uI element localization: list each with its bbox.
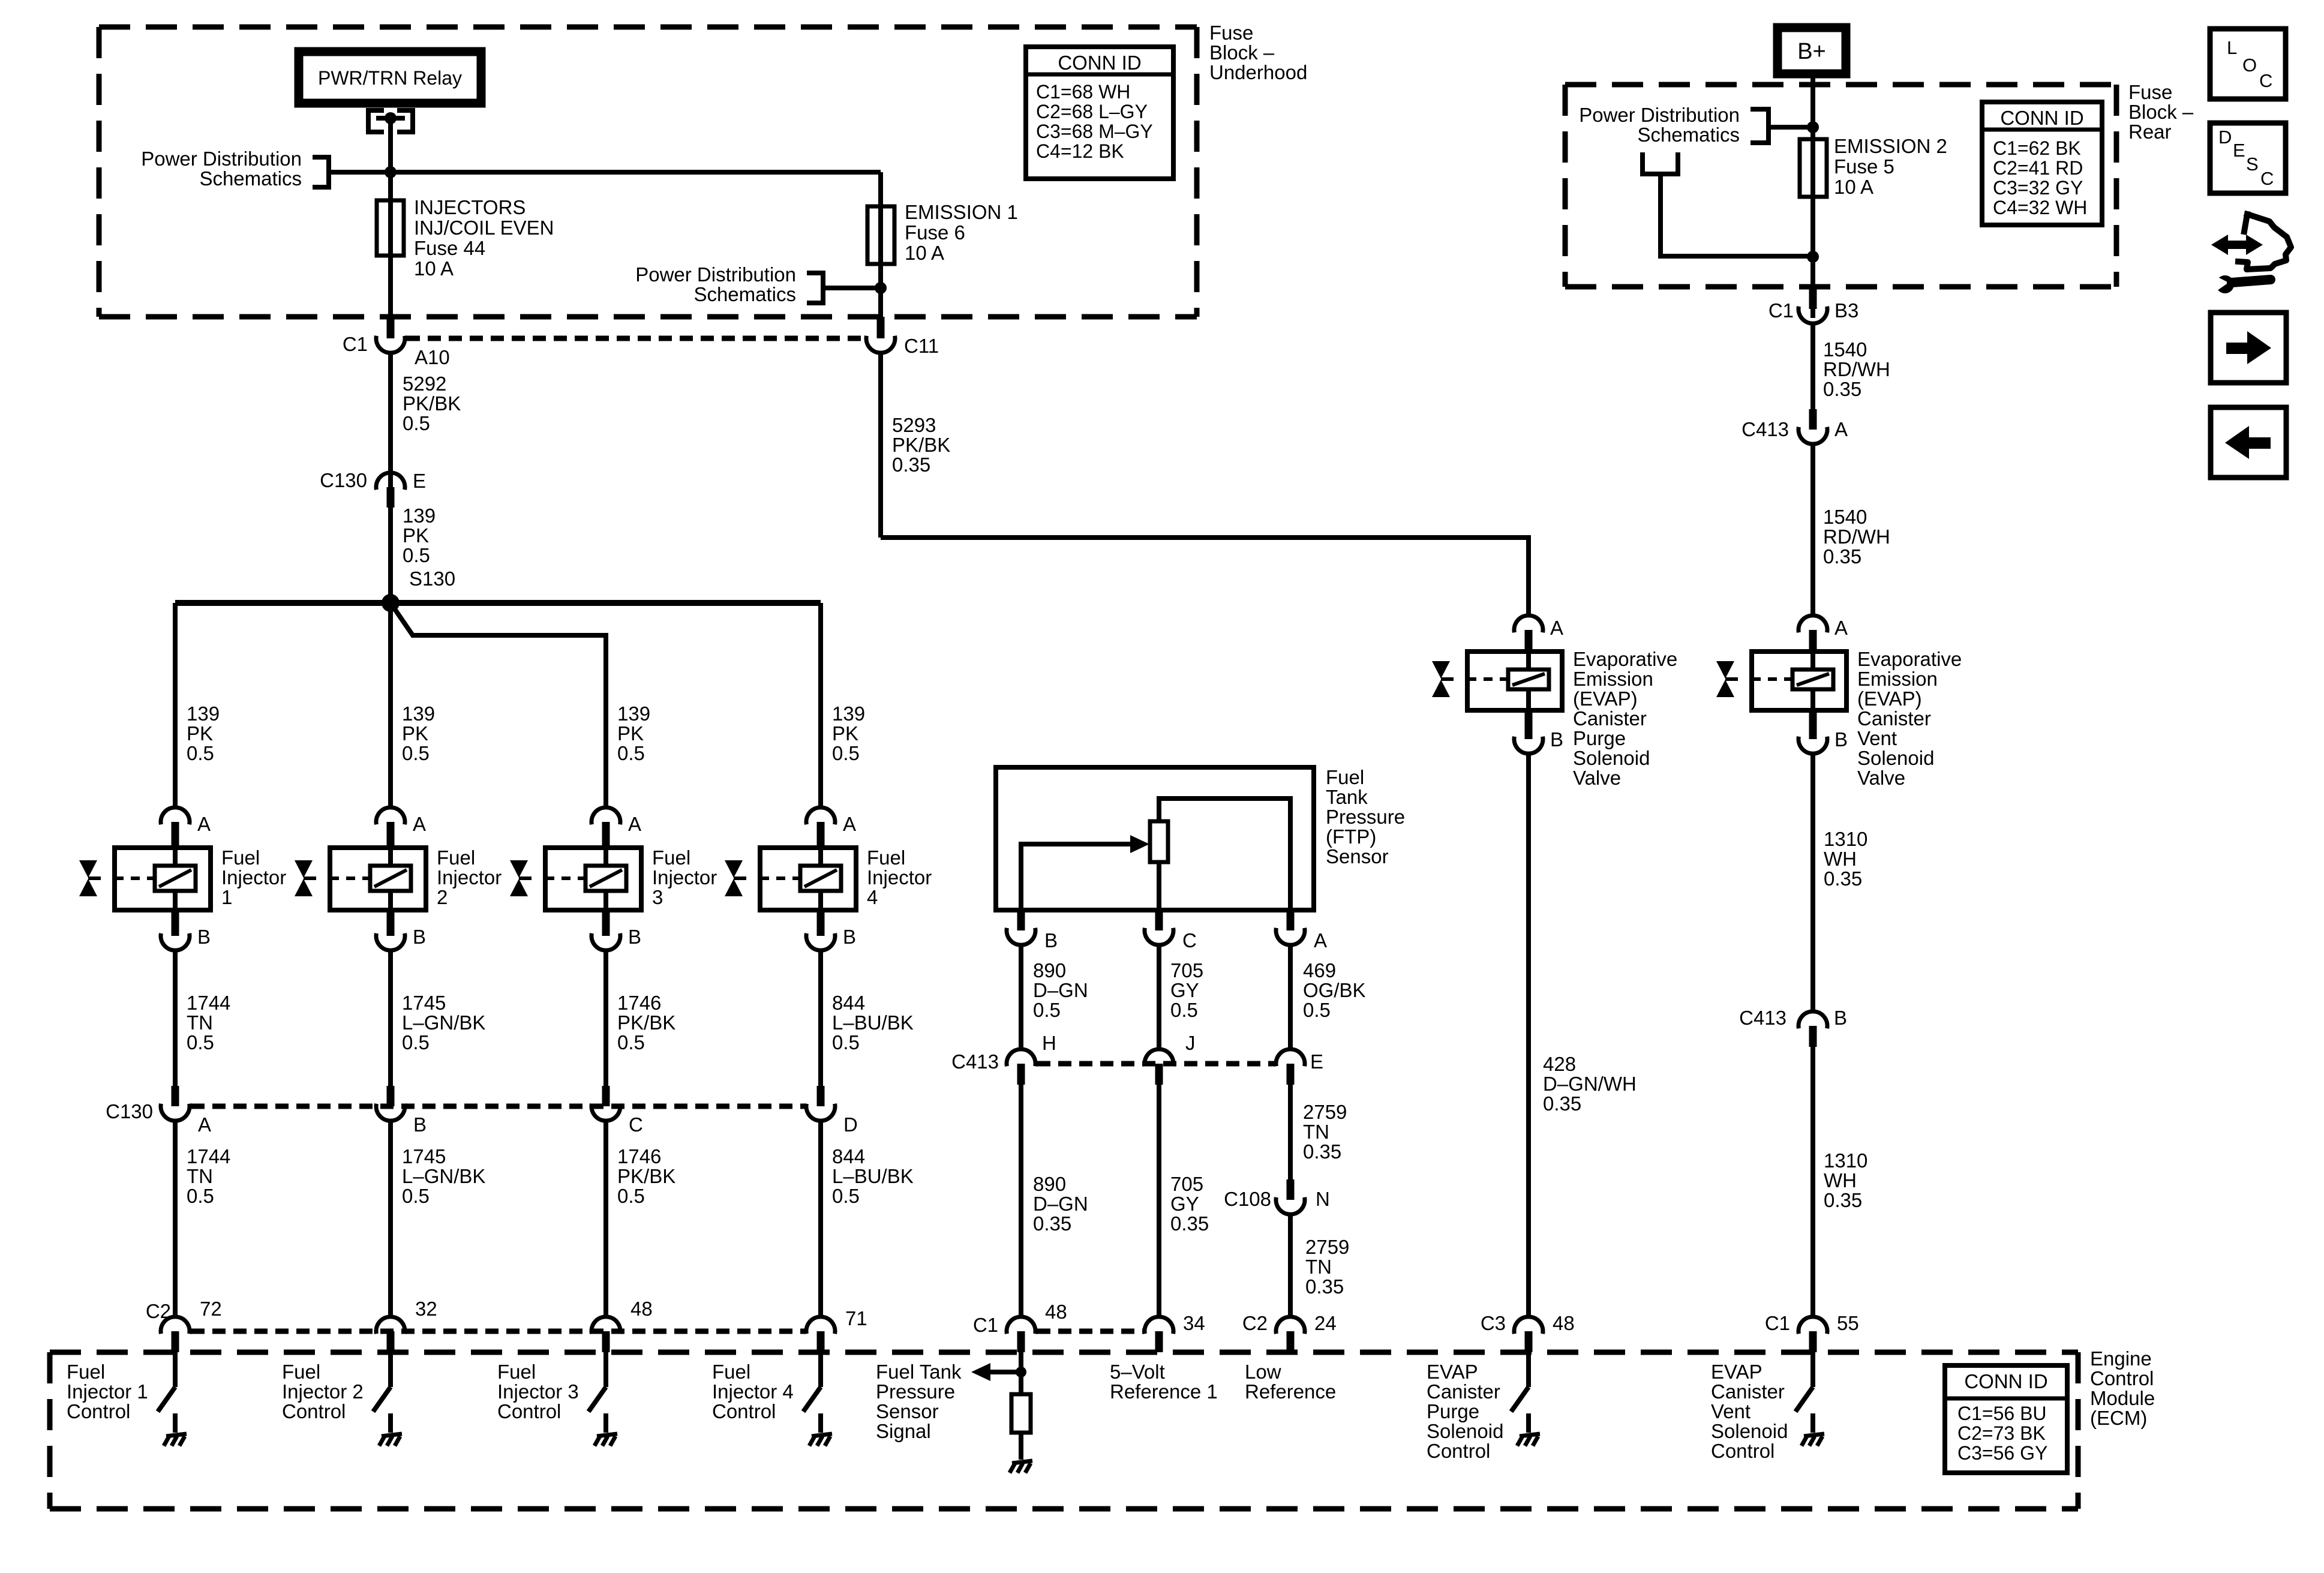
svg-text:1540: 1540 (1823, 338, 1867, 361)
svg-text:J: J (1185, 1032, 1196, 1054)
wire label 469 OG/BK 0.5 (1303, 959, 1366, 1021)
svg-text:C3: C3 (1481, 1312, 1506, 1334)
svg-text:Evaporative: Evaporative (1857, 648, 1962, 670)
svg-text:C1=56 BU: C1=56 BU (1957, 1403, 2047, 1424)
connector C2 pin 48 (591, 1317, 620, 1352)
fuel injector 2 component (330, 848, 426, 910)
wire label 890 D-GN 0.35 (1033, 1173, 1088, 1235)
svg-text:TN: TN (1303, 1121, 1329, 1143)
svg-text:Power Distribution: Power Distribution (141, 148, 302, 170)
wire label 844 L–BU/BK (lower) (832, 1145, 914, 1207)
svg-text:Schematics: Schematics (199, 167, 302, 190)
svg-text:2759: 2759 (1305, 1236, 1349, 1258)
svg-text:GY: GY (1170, 979, 1199, 1001)
svg-text:139: 139 (402, 703, 435, 725)
svg-text:Underhood: Underhood (1209, 61, 1307, 83)
svg-text:Fuse: Fuse (1209, 22, 1253, 44)
label: Fuel Injector 3 Control (497, 1361, 579, 1422)
svg-text:0.35: 0.35 (892, 454, 930, 476)
fuel injector 1 pin B (161, 910, 190, 950)
connector C130 pin C (591, 1086, 620, 1317)
EVAP purge valve pin A (1514, 616, 1543, 652)
connector C413 pin H (1007, 1049, 1035, 1085)
svg-text:RD/WH: RD/WH (1823, 358, 1890, 380)
svg-text:Reference 1: Reference 1 (1110, 1380, 1218, 1403)
svg-text:0.5: 0.5 (832, 1185, 860, 1207)
svg-text:Pressure: Pressure (876, 1380, 955, 1403)
node: junction below EMISSION 2 fuse (1807, 251, 1819, 263)
svg-text:890: 890 (1033, 1173, 1066, 1195)
svg-text:L–GN/BK: L–GN/BK (402, 1011, 485, 1034)
svg-text:Block –: Block – (2128, 101, 2194, 123)
svg-text:Reference: Reference (1245, 1380, 1336, 1403)
wire label 2759 TN 0.35 (lower) (1305, 1236, 1349, 1298)
wire: injector 3 B to C130 (603, 950, 608, 1106)
svg-text:D–GN: D–GN (1033, 1193, 1088, 1215)
node: junction below EMISSION 1 fuse (875, 282, 887, 294)
ECM switch: EVAP vent driver (1795, 1352, 1813, 1433)
svg-text:C: C (629, 1113, 643, 1136)
icon: DESC box (2210, 123, 2286, 193)
svg-text:Schematics: Schematics (693, 283, 796, 305)
svg-text:0.35: 0.35 (1824, 1189, 1862, 1211)
fuel injector 3 pin B (591, 910, 620, 950)
svg-text:Fuel: Fuel (497, 1361, 536, 1383)
svg-text:EMISSION 2: EMISSION 2 (1834, 135, 1947, 157)
svg-text:Vent: Vent (1711, 1400, 1750, 1422)
fuse F6: EMISSION 1 (867, 206, 894, 318)
svg-text:A: A (1314, 929, 1327, 951)
svg-text:Injector 2: Injector 2 (282, 1380, 364, 1403)
svg-text:0.35: 0.35 (1543, 1092, 1581, 1115)
ground (injector 2 driver) (379, 1434, 402, 1446)
fuel injector 4 valve bowtie (725, 860, 746, 896)
wire label 705 GY 0.35 (1170, 1173, 1209, 1235)
svg-text:B: B (1550, 728, 1563, 751)
wire label 139 PK 0.5 at x=292 (187, 703, 220, 764)
svg-text:A: A (843, 813, 856, 835)
svg-text:Power Distribution: Power Distribution (635, 263, 796, 286)
svg-text:Injector: Injector (867, 866, 932, 888)
ECM input: fuel tank pressure sensor signal (971, 1352, 1026, 1394)
svg-text:Control: Control (712, 1400, 776, 1422)
svg-text:Power Distribution: Power Distribution (1579, 104, 1740, 126)
svg-text:71: 71 (845, 1307, 867, 1329)
svg-text:Injector: Injector (652, 866, 717, 888)
svg-text:PK: PK (403, 524, 429, 547)
svg-text:10 A: 10 A (414, 257, 454, 280)
connector C1 pin 34 (1145, 1317, 1173, 1352)
svg-text:O: O (2242, 55, 2257, 76)
svg-text:C1=62 BK: C1=62 BK (1993, 137, 2081, 159)
svg-text:0.5: 0.5 (402, 1031, 430, 1053)
svg-text:C1: C1 (343, 333, 368, 355)
svg-text:D: D (2218, 127, 2232, 148)
label: Fuse Block - Rear (2128, 81, 2194, 143)
conn box: CONN ID (fuse block rear) (1982, 102, 2102, 225)
svg-text:(FTP): (FTP) (1326, 825, 1376, 848)
connector C130 pin B (376, 1086, 405, 1317)
svg-text:PK: PK (402, 722, 428, 745)
svg-text:B3: B3 (1834, 299, 1858, 322)
svg-text:Control: Control (282, 1400, 346, 1422)
node: junction at B+ wire (1807, 121, 1819, 133)
svg-text:0.5: 0.5 (617, 1185, 645, 1207)
svg-text:B: B (1834, 728, 1848, 751)
bracket: power distribution feed (rear right) (1750, 109, 1813, 143)
svg-text:0.5: 0.5 (402, 742, 430, 764)
svg-text:10 A: 10 A (905, 242, 944, 264)
svg-text:C4=12 BK: C4=12 BK (1036, 140, 1124, 162)
svg-text:(EVAP): (EVAP) (1573, 688, 1638, 710)
svg-text:Fuel: Fuel (282, 1361, 320, 1383)
EVAP vent valve bowtie (1716, 661, 1738, 697)
svg-text:Fuse 5: Fuse 5 (1834, 155, 1894, 178)
wire label 1310 WH 0.35 (lower) (1824, 1149, 1867, 1211)
svg-text:Control: Control (2090, 1367, 2154, 1389)
wire label 1746 PK/BK (upper) (617, 992, 675, 1053)
svg-text:C: C (2260, 168, 2274, 189)
svg-text:0.35: 0.35 (1303, 1140, 1341, 1163)
connector C2 pin 71 (806, 1317, 835, 1352)
connector C130 pin E (376, 473, 405, 508)
svg-text:C1: C1 (1768, 299, 1794, 322)
wire label 1540 RD/WH 0.35 (lower) (1823, 506, 1890, 568)
svg-text:GY: GY (1170, 1193, 1199, 1215)
wire label 1746 PK/BK (lower) (617, 1145, 675, 1207)
svg-text:1744: 1744 (187, 1145, 230, 1167)
label: Fuel Injector 1 Control (67, 1361, 148, 1422)
ground (vent driver) (1801, 1434, 1824, 1446)
fuel injector 1 valve bowtie (79, 860, 101, 896)
svg-text:1746: 1746 (617, 1145, 661, 1167)
svg-text:C: C (2259, 70, 2272, 91)
label: Fuel Injector 4 Control (712, 1361, 794, 1422)
svg-text:S130: S130 (409, 568, 455, 590)
wire: C130 E to splice S130 (388, 508, 393, 603)
connector C413 pin E (1276, 1049, 1305, 1085)
connector C413 row dashed line (1037, 1061, 1274, 1067)
label: Low Reference (1245, 1361, 1336, 1403)
svg-text:PWR/TRN Relay: PWR/TRN Relay (318, 67, 462, 89)
ECM switch: fuel injector 1 driver (158, 1352, 175, 1433)
fuel injector 2 valve bowtie (295, 860, 316, 896)
label: Fuse Block - Underhood (1209, 22, 1307, 83)
fuel injector 1 pin A (161, 807, 190, 848)
svg-text:139: 139 (403, 505, 436, 527)
wire label 2759 TN 0.35 (upper) (1303, 1101, 1347, 1163)
svg-text:Control: Control (1711, 1440, 1774, 1462)
wire: S130 to injector 4 (818, 603, 823, 807)
connector C11 (866, 317, 895, 538)
label: Power Distribution Schematics (rear) (1579, 104, 1740, 146)
svg-text:E: E (1310, 1050, 1323, 1073)
wire: B+ down to connector (1810, 70, 1815, 318)
svg-text:705: 705 (1170, 1173, 1203, 1195)
svg-text:D–GN/WH: D–GN/WH (1543, 1073, 1637, 1095)
ground (injector 4 driver) (809, 1434, 832, 1446)
svg-text:0.5: 0.5 (187, 1031, 214, 1053)
svg-text:0.5: 0.5 (403, 544, 430, 566)
icon: right arrow box (2211, 313, 2286, 383)
svg-text:705: 705 (1170, 959, 1203, 981)
svg-text:Canister: Canister (1711, 1380, 1785, 1403)
svg-text:C1: C1 (1765, 1312, 1790, 1334)
wire label 1744 TN (upper) (187, 992, 230, 1053)
svg-text:Fuel: Fuel (652, 846, 690, 869)
fuel injector 4 pin A (806, 807, 835, 848)
ground (purge driver) (1517, 1434, 1540, 1446)
svg-text:5292: 5292 (403, 373, 446, 395)
svg-text:Pressure: Pressure (1326, 806, 1405, 828)
svg-text:C413: C413 (1739, 1007, 1786, 1029)
ECM pulldown resistor (1011, 1394, 1031, 1460)
svg-text:C3=32 GY: C3=32 GY (1993, 177, 2083, 199)
connector C1 pin A10 (376, 317, 405, 508)
svg-text:PK: PK (832, 722, 858, 745)
wire: FTP C to C413 J (1157, 945, 1161, 1049)
svg-text:C1: C1 (973, 1314, 998, 1336)
wire label 1744 TN (lower) (187, 1145, 230, 1207)
FTP potentiometer resistor (1150, 821, 1168, 910)
label: Fuel Injector 2 Control (282, 1361, 364, 1422)
label: INJECTORS Fuse 44 (414, 196, 554, 280)
svg-text:0.5: 0.5 (1033, 999, 1061, 1021)
svg-text:Control: Control (1427, 1440, 1490, 1462)
svg-text:3: 3 (652, 886, 663, 908)
svg-text:Fuel: Fuel (712, 1361, 750, 1383)
ECM switch: fuel injector 4 driver (803, 1352, 821, 1433)
svg-text:10 A: 10 A (1834, 176, 1873, 198)
wire: purge valve B to ECM pin 48 (1526, 754, 1531, 1317)
label: 5-Volt Reference 1 (1110, 1361, 1218, 1403)
svg-text:32: 32 (415, 1298, 437, 1320)
wire label 5293 PK/BK 0.35 (892, 414, 950, 476)
connector C2 row dashed line (191, 1329, 804, 1334)
label: Fuel Tank Pressure (FTP) Sensor (1326, 766, 1405, 867)
svg-text:48: 48 (1045, 1301, 1067, 1323)
svg-text:B: B (843, 926, 856, 948)
svg-text:B: B (628, 926, 641, 948)
svg-text:PK/BK: PK/BK (617, 1011, 675, 1034)
EVAP purge valve pin B (1514, 710, 1543, 754)
bracket: power distribution feed (rear lower U) (1643, 152, 1813, 256)
svg-text:Valve: Valve (1857, 767, 1905, 789)
svg-text:EVAP: EVAP (1427, 1361, 1478, 1383)
wire: FTP B to C413 H (1019, 945, 1023, 1049)
svg-text:0.5: 0.5 (617, 742, 645, 764)
svg-text:B: B (1044, 929, 1058, 951)
connector C2 pin 32 (376, 1317, 405, 1352)
svg-text:48: 48 (630, 1298, 653, 1320)
label: Fuel Injector 4 (867, 846, 932, 908)
ECM switch: fuel injector 3 driver (588, 1352, 606, 1433)
dashed line C1-C11 (407, 336, 864, 341)
EVAP vent valve pin A (1798, 616, 1827, 652)
svg-text:B+: B+ (1797, 39, 1826, 64)
svg-text:C2=73 BK: C2=73 BK (1957, 1422, 2046, 1444)
icon: LOC box (2210, 29, 2286, 99)
ground (FTP signal) (1010, 1461, 1032, 1473)
svg-text:1310: 1310 (1824, 1149, 1867, 1172)
svg-text:WH: WH (1824, 1169, 1857, 1191)
svg-text:A10: A10 (415, 346, 450, 368)
label: Engine Control Module (ECM) (2090, 1347, 2155, 1429)
svg-text:B: B (413, 1113, 427, 1136)
svg-text:A: A (413, 813, 426, 835)
label: EVAP Canister Purge Solenoid Valve (1573, 648, 1677, 789)
svg-text:1746: 1746 (617, 992, 661, 1014)
svg-text:Fuel: Fuel (437, 846, 475, 869)
svg-text:Solenoid: Solenoid (1711, 1420, 1788, 1442)
wire label 890 D-GN 0.5 (1033, 959, 1088, 1021)
svg-text:C1=68 WH: C1=68 WH (1036, 81, 1130, 103)
fuse F44: INJECTORS INJ/COIL EVEN (377, 172, 404, 318)
ECM switch: EVAP purge driver (1511, 1352, 1529, 1433)
svg-text:PK: PK (187, 722, 213, 745)
wire: feed junction to EMISSION 1 branch (391, 172, 881, 206)
svg-text:Canister: Canister (1573, 707, 1647, 730)
ground (injector 1 driver) (164, 1434, 187, 1446)
svg-text:0.5: 0.5 (402, 1185, 430, 1207)
svg-text:PK: PK (617, 722, 644, 745)
svg-text:C130: C130 (106, 1100, 153, 1122)
svg-text:C3=68 M–GY: C3=68 M–GY (1036, 121, 1153, 142)
svg-text:0.5: 0.5 (1170, 999, 1198, 1021)
label: EVAP Canister Purge Solenoid Control (1427, 1361, 1503, 1462)
svg-text:469: 469 (1303, 959, 1336, 981)
svg-text:D: D (843, 1113, 858, 1136)
svg-text:Fuel Tank: Fuel Tank (876, 1361, 962, 1383)
wire label 1540 RD/WH 0.35 (upper) (1823, 338, 1890, 400)
ECM switch: fuel injector 2 driver (373, 1352, 391, 1433)
wire: injector 1 B to C130 (173, 950, 178, 1106)
connector C2 pin 72 (161, 1317, 190, 1352)
svg-text:4: 4 (867, 886, 878, 908)
svg-text:TN: TN (187, 1165, 213, 1187)
connector C130 pin D (806, 1086, 835, 1317)
svg-text:Rear: Rear (2128, 121, 2172, 143)
svg-text:0.5: 0.5 (403, 412, 430, 434)
EVAP vent valve component (1752, 652, 1846, 710)
svg-text:PK/BK: PK/BK (403, 392, 461, 415)
fuse block underhood dashed box (99, 27, 1197, 317)
svg-text:C11: C11 (904, 335, 939, 357)
svg-text:Control: Control (497, 1400, 561, 1422)
svg-text:C108: C108 (1224, 1188, 1271, 1210)
label: Fuel Injector 2 (437, 846, 502, 908)
connector C108 pin N (1276, 1179, 1305, 1317)
svg-text:Solenoid: Solenoid (1573, 747, 1650, 769)
svg-text:48: 48 (1553, 1312, 1575, 1334)
svg-text:844: 844 (832, 992, 865, 1014)
power node B+ box (1777, 28, 1846, 74)
svg-text:CONN ID: CONN ID (2000, 107, 2083, 129)
svg-text:1745: 1745 (402, 992, 446, 1014)
FTP loop to pin A (1159, 798, 1290, 910)
wire label 1745 L–GN/BK (upper) (402, 992, 485, 1053)
svg-text:TN: TN (1305, 1256, 1332, 1278)
svg-text:EVAP: EVAP (1711, 1361, 1762, 1383)
EVAP vent valve pin B (1798, 710, 1827, 754)
wire: S130 to injector 2 (388, 603, 393, 807)
svg-text:139: 139 (187, 703, 220, 725)
svg-text:Fuse 6: Fuse 6 (905, 221, 965, 244)
svg-text:C413: C413 (951, 1050, 999, 1073)
label: EMISSION 2 Fuse 5 (1834, 135, 1947, 198)
wire label 139 PK 0.5 at x=1010 (617, 703, 650, 764)
svg-text:Emission: Emission (1857, 668, 1938, 690)
svg-text:N: N (1316, 1188, 1330, 1210)
svg-text:B: B (413, 926, 426, 948)
label: Fuel Tank Pressure Sensor Signal (876, 1361, 962, 1442)
svg-text:A: A (198, 1113, 211, 1136)
connector C130 row dashed line (191, 1104, 804, 1109)
FTP wiper arrow (1021, 835, 1149, 910)
svg-text:Purge: Purge (1427, 1400, 1479, 1422)
svg-text:Fuse: Fuse (2128, 81, 2172, 103)
label: EVAP Canister Vent Solenoid Valve (1857, 648, 1962, 789)
FTP sensor pin A (1276, 910, 1305, 945)
svg-text:0.35: 0.35 (1823, 378, 1861, 400)
svg-text:C2: C2 (1242, 1312, 1268, 1334)
label: EMISSION 1 Fuse 6 (905, 201, 1018, 264)
svg-text:24: 24 (1314, 1312, 1337, 1334)
wire: vent valve B to C413 B (1810, 754, 1815, 1011)
connector C3 pin 48 (purge) (1514, 1317, 1543, 1352)
svg-text:CONN ID: CONN ID (1058, 52, 1141, 74)
svg-text:INJ/COIL EVEN: INJ/COIL EVEN (414, 217, 554, 239)
svg-text:WH: WH (1824, 848, 1857, 870)
svg-text:Vent: Vent (1857, 727, 1897, 749)
svg-text:EMISSION 1: EMISSION 1 (905, 201, 1018, 223)
connector C130 pin A (161, 1086, 190, 1317)
label: EVAP Canister Vent Solenoid Control (1711, 1361, 1788, 1462)
svg-text:0.5: 0.5 (832, 742, 860, 764)
svg-text:1540: 1540 (1823, 506, 1867, 528)
svg-text:RD/WH: RD/WH (1823, 526, 1890, 548)
wire: injector 4 B to C130 (818, 950, 823, 1106)
svg-text:B: B (197, 926, 211, 948)
wire: C11 to EVAP purge valve (881, 538, 1529, 616)
svg-text:Canister: Canister (1427, 1380, 1500, 1403)
svg-text:L–BU/BK: L–BU/BK (832, 1165, 914, 1187)
svg-text:Fuel: Fuel (1326, 766, 1364, 788)
relay K: PWR/TRN Relay box (299, 52, 481, 103)
connector C2 pin 24 (1276, 1317, 1305, 1352)
svg-text:Module: Module (2090, 1387, 2155, 1409)
wire label 428 D-GN/WH 0.35 (1543, 1053, 1637, 1115)
svg-text:Sensor: Sensor (876, 1400, 939, 1422)
fuse F5: EMISSION 2 (1800, 139, 1827, 197)
svg-text:Block –: Block – (1209, 41, 1275, 64)
node: feed junction on relay wire (385, 166, 397, 178)
label: Fuel Injector 1 (221, 846, 286, 908)
wire label 1310 WH 0.35 (upper) (1824, 828, 1867, 890)
svg-text:Evaporative: Evaporative (1573, 648, 1677, 670)
svg-text:Tank: Tank (1326, 786, 1368, 808)
svg-text:0.5: 0.5 (187, 1185, 214, 1207)
svg-text:CONN ID: CONN ID (1964, 1370, 2047, 1392)
svg-text:Injector 3: Injector 3 (497, 1380, 579, 1403)
svg-text:(ECM): (ECM) (2090, 1407, 2147, 1429)
svg-text:890: 890 (1033, 959, 1066, 981)
svg-text:E: E (2233, 140, 2245, 161)
svg-text:Fuel: Fuel (67, 1361, 105, 1383)
svg-text:C3=56 GY: C3=56 GY (1957, 1442, 2047, 1464)
splice S130 (175, 594, 821, 612)
wire: relay to feed junction (388, 118, 393, 172)
